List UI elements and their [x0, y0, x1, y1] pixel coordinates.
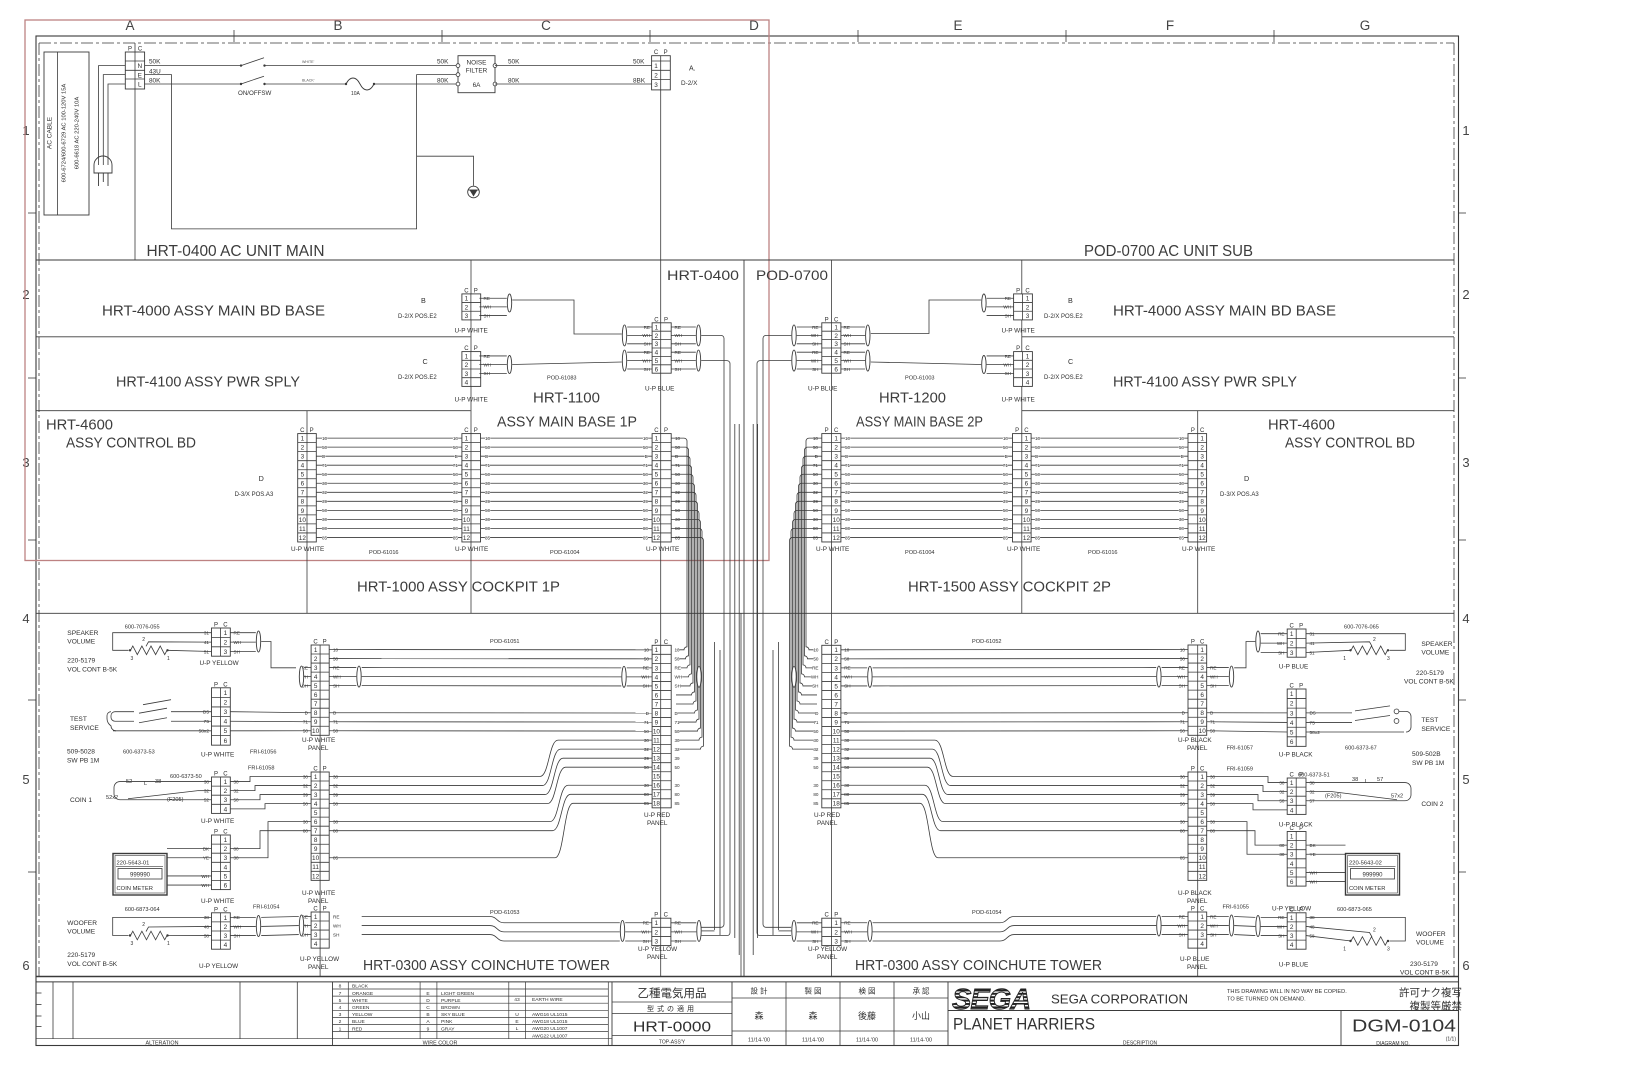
svg-text:TOP-ASS'Y: TOP-ASS'Y [659, 1040, 686, 1046]
svg-text:6: 6 [224, 738, 228, 745]
svg-text:30: 30 [453, 481, 459, 486]
wires L2-L3 [481, 438, 653, 537]
svg-text:39: 39 [845, 499, 851, 504]
svg-text:32: 32 [1035, 490, 1041, 495]
svg-text:7: 7 [314, 828, 318, 835]
bead at connector B [507, 294, 511, 312]
svg-text:6: 6 [301, 481, 305, 488]
svg-text:30: 30 [485, 481, 491, 486]
wire B to mid connector [512, 300, 622, 334]
svg-text:U-P YELLOW: U-P YELLOW [199, 963, 239, 970]
bead right of panel 10pin [357, 666, 361, 687]
svg-text:6: 6 [1200, 481, 1204, 488]
svg-text:2: 2 [1290, 641, 1294, 648]
svg-text:30: 30 [1035, 517, 1041, 522]
svg-text:VOLUME: VOLUME [1421, 650, 1449, 657]
svg-text:80: 80 [485, 526, 491, 531]
svg-text:U-P WHITE: U-P WHITE [302, 737, 335, 744]
svg-text:U-P YELLOW: U-P YELLOW [200, 660, 240, 667]
svg-text:80: 80 [845, 526, 851, 531]
svg-text:50: 50 [485, 445, 491, 450]
svg-text:30: 30 [675, 783, 681, 788]
svg-text:C: C [138, 47, 143, 53]
svg-text:50: 50 [643, 472, 649, 477]
wires plug to AC connector [99, 66, 126, 165]
svg-text:5: 5 [1290, 729, 1294, 736]
svg-text:C: C [313, 767, 318, 773]
svg-text:C: C [426, 1005, 430, 1011]
svg-text:7: 7 [1025, 490, 1029, 497]
svg-text:6: 6 [1290, 739, 1294, 746]
svg-text:57x2: 57x2 [1391, 794, 1403, 800]
svg-text:600-6873-064: 600-6873-064 [125, 907, 160, 913]
svg-text:POD-0700: POD-0700 [756, 267, 828, 283]
pot speaker left [113, 633, 212, 662]
svg-text:C: C [464, 346, 469, 352]
wire white to filter [265, 65, 459, 67]
svg-text:71: 71 [1035, 463, 1041, 468]
svg-text:HRT-0400 AC UNIT MAIN: HRT-0400 AC UNIT MAIN [147, 243, 325, 260]
svg-text:3: 3 [224, 855, 228, 862]
svg-text:C: C [223, 830, 228, 836]
svg-text:SH: SH [812, 684, 818, 689]
svg-text:6: 6 [655, 481, 659, 488]
svg-text:P: P [1191, 428, 1195, 434]
svg-text:2: 2 [654, 72, 658, 79]
svg-text:4: 4 [834, 463, 838, 470]
wires woofer right [1207, 917, 1288, 936]
bead at connector C' [982, 356, 986, 374]
svg-text:50: 50 [453, 508, 459, 513]
svg-text:3: 3 [465, 454, 469, 461]
svg-text:C: C [654, 317, 659, 323]
svg-text:U-P WHITE: U-P WHITE [816, 546, 849, 553]
wires bead to panel 10pin [304, 667, 311, 669]
svg-text:10: 10 [653, 517, 661, 524]
svg-text:FRI-61054: FRI-61054 [253, 905, 279, 911]
svg-text:D5: D5 [1310, 711, 1316, 717]
svg-text:1: 1 [465, 436, 469, 443]
svg-text:(1/1): (1/1) [1446, 1037, 1457, 1043]
svg-text:17: 17 [833, 792, 841, 799]
svg-text:11/14-'00: 11/14-'00 [802, 1038, 824, 1044]
svg-text:220-5179: 220-5179 [67, 658, 95, 665]
svg-text:6: 6 [314, 692, 318, 699]
svg-text:18: 18 [653, 801, 661, 808]
svg-text:SW PB 1M: SW PB 1M [1412, 760, 1444, 767]
svg-text:39: 39 [1003, 499, 1009, 504]
wires yellow panel left right side [671, 923, 715, 941]
svg-text:4: 4 [224, 719, 228, 726]
svg-text:C: C [1024, 428, 1029, 434]
svg-text:8: 8 [1200, 837, 1204, 844]
svg-text:FRI-61056: FRI-61056 [250, 750, 276, 756]
svg-text:POD-61083: POD-61083 [547, 376, 577, 382]
svg-text:4: 4 [1200, 941, 1204, 948]
svg-text:U: U [515, 1012, 519, 1018]
svg-text:50: 50 [1179, 445, 1185, 450]
svg-text:58x2: 58x2 [1310, 730, 1321, 736]
svg-text:FRI-61058: FRI-61058 [248, 766, 274, 772]
svg-text:6: 6 [22, 958, 29, 973]
svg-text:2: 2 [339, 1019, 342, 1025]
svg-text:FRI-61055: FRI-61055 [1223, 905, 1249, 911]
svg-text:14: 14 [653, 765, 661, 772]
svg-text:32: 32 [675, 747, 681, 752]
svg-text:P: P [654, 640, 658, 646]
svg-text:11: 11 [1199, 864, 1206, 871]
woofer volume left [67, 905, 279, 969]
svg-text:1: 1 [339, 1026, 342, 1032]
label A. D-2/X [681, 66, 698, 88]
svg-text:5: 5 [1200, 810, 1204, 817]
svg-text:D-2/X POS.E2: D-2/X POS.E2 [1044, 314, 1083, 320]
svg-text:7: 7 [314, 701, 318, 708]
panel 10pin [311, 640, 329, 736]
wires R3-R2 [841, 438, 1013, 537]
svg-text:ASSY CONTROL BD: ASSY CONTROL BD [66, 436, 196, 452]
svg-text:3: 3 [301, 454, 305, 461]
svg-text:4: 4 [655, 350, 659, 357]
wires D 71 50 red to panel right [841, 713, 1188, 731]
svg-text:WH: WH [333, 923, 341, 928]
coin1 wires [114, 782, 212, 800]
svg-text:6: 6 [834, 692, 838, 699]
svg-text:U-P BLUE: U-P BLUE [645, 386, 674, 393]
U-P RED PANEL 18pin [652, 640, 671, 808]
svg-text:1: 1 [834, 324, 838, 331]
svg-text:C: C [1290, 826, 1295, 832]
svg-text:POD-61016: POD-61016 [1088, 550, 1118, 556]
svg-text:80K: 80K [437, 78, 449, 85]
svg-text:85: 85 [1035, 535, 1041, 540]
svg-text:8: 8 [1200, 710, 1204, 717]
svg-text:9: 9 [301, 508, 305, 515]
svg-text:C: C [654, 50, 659, 56]
svg-text:600-6373-50: 600-6373-50 [170, 774, 202, 780]
svg-text:承 認: 承 認 [912, 986, 930, 996]
wire L 80K to switch [145, 83, 241, 85]
wires yellow panel right left side [779, 923, 822, 941]
U-P WHITE labels row3 [291, 546, 1215, 556]
svg-text:12: 12 [833, 747, 841, 754]
svg-text:C: C [423, 357, 428, 366]
svg-text:10: 10 [299, 517, 307, 524]
svg-text:ORANGE: ORANGE [352, 991, 374, 997]
svg-text:B: B [1068, 296, 1073, 305]
svg-text:1: 1 [654, 63, 658, 70]
svg-text:7: 7 [465, 490, 469, 497]
svg-text:1: 1 [167, 656, 170, 662]
svg-text:50K: 50K [633, 59, 645, 66]
svg-text:1: 1 [1200, 774, 1204, 781]
svg-text:U-P BLACK: U-P BLACK [1279, 752, 1313, 759]
svg-text:C: C [223, 772, 228, 778]
bead at connector C [507, 356, 511, 374]
svg-text:U-P WHITE: U-P WHITE [302, 890, 335, 897]
svg-text:C: C [300, 428, 305, 434]
svg-text:3: 3 [834, 665, 838, 672]
beads at 6pin left [622, 325, 626, 346]
svg-text:SPEAKER: SPEAKER [67, 630, 98, 637]
svg-text:U-P WHITE: U-P WHITE [201, 818, 234, 825]
svg-text:11: 11 [833, 738, 840, 745]
svg-text:50: 50 [485, 472, 491, 477]
svg-text:VOL CONT B-5K: VOL CONT B-5K [1400, 970, 1450, 977]
svg-text:9: 9 [427, 1026, 430, 1032]
svg-text:1: 1 [314, 774, 318, 781]
svg-text:U-P WHITE: U-P WHITE [1002, 397, 1035, 404]
svg-text:600-6373-53: 600-6373-53 [123, 750, 155, 756]
beads at red panel right [792, 666, 796, 687]
svg-text:C: C [1290, 624, 1295, 630]
svg-text:50: 50 [1003, 472, 1009, 477]
svg-text:5: 5 [465, 472, 469, 479]
svg-text:P: P [1016, 288, 1020, 294]
svg-text:10: 10 [1023, 517, 1031, 524]
svg-text:P: P [1015, 428, 1019, 434]
svg-text:15: 15 [653, 774, 661, 781]
wires woofer to bead [230, 916, 256, 918]
svg-text:5: 5 [301, 472, 305, 479]
section divider lines [36, 260, 1459, 977]
bead panel speaker left [299, 666, 303, 687]
svg-text:3: 3 [654, 938, 658, 945]
svg-text:5: 5 [655, 683, 659, 690]
svg-text:森: 森 [754, 1010, 763, 1021]
svg-text:7: 7 [1200, 828, 1204, 835]
svg-text:3: 3 [1290, 710, 1294, 717]
svg-text:WHITE': WHITE' [302, 60, 315, 64]
svg-text:9: 9 [1200, 846, 1204, 853]
svg-text:2: 2 [1373, 637, 1376, 643]
pot woofer left [113, 917, 212, 947]
svg-text:TEST: TEST [70, 716, 87, 723]
svg-text:AWG18 UL1015: AWG18 UL1015 [532, 1019, 568, 1025]
svg-text:2: 2 [654, 929, 658, 936]
svg-text:220-5179: 220-5179 [1416, 670, 1444, 677]
svg-text:6: 6 [465, 481, 469, 488]
svg-text:5: 5 [339, 998, 342, 1004]
svg-text:HRT-1500 ASSY COCKPIT 2P: HRT-1500 ASSY COCKPIT 2P [908, 579, 1111, 596]
svg-text:許可ナク複写: 許可ナク複写 [1399, 986, 1462, 999]
svg-text:2: 2 [834, 929, 838, 936]
pot speaker right [1306, 634, 1405, 662]
svg-text:F: F [1166, 18, 1174, 33]
svg-text:ASSY CONTROL BD: ASSY CONTROL BD [1285, 436, 1415, 452]
svg-text:D-2/X: D-2/X [681, 80, 698, 87]
svg-text:50: 50 [675, 657, 681, 662]
svg-text:C: C [834, 317, 839, 323]
svg-text:10: 10 [312, 728, 320, 735]
svg-text:P: P [474, 288, 478, 294]
svg-text:75: 75 [204, 719, 210, 725]
svg-text:1: 1 [314, 647, 318, 654]
panel 4pin blue [1188, 907, 1207, 949]
svg-text:2: 2 [1026, 304, 1030, 311]
svg-text:P: P [825, 317, 829, 323]
svg-text:NOISE: NOISE [467, 60, 487, 67]
svg-text:50: 50 [845, 508, 851, 513]
svg-text:3: 3 [1290, 933, 1294, 940]
wires POD-61054 [841, 910, 1188, 941]
svg-text:80: 80 [453, 526, 459, 531]
svg-text:2: 2 [224, 846, 228, 853]
wires C to bead [479, 355, 506, 357]
svg-text:7: 7 [834, 701, 838, 708]
svg-text:9: 9 [1025, 508, 1029, 515]
svg-text:4: 4 [301, 463, 305, 470]
test 6pin U-P BLACK right [1287, 684, 1306, 747]
svg-text:2: 2 [314, 923, 318, 930]
svg-text:10: 10 [1003, 436, 1009, 441]
svg-text:9: 9 [834, 508, 838, 515]
svg-text:PLANET HARRIERS: PLANET HARRIERS [953, 1016, 1095, 1034]
svg-text:7: 7 [1200, 701, 1204, 708]
svg-text:999990: 999990 [1362, 873, 1383, 879]
ground symbol [468, 186, 480, 198]
wire POD-61051 rows [329, 639, 652, 659]
svg-text:PANEL: PANEL [647, 954, 668, 961]
speaker volume pot left [67, 625, 159, 674]
svg-text:4: 4 [1200, 801, 1204, 808]
svg-text:1: 1 [654, 920, 658, 927]
svg-text:HRT-4100 ASSY PWR SPLY: HRT-4100 ASSY PWR SPLY [116, 375, 300, 391]
svg-text:11: 11 [1199, 526, 1206, 533]
svg-text:4: 4 [1026, 379, 1030, 386]
bead speaker right [1256, 631, 1260, 652]
svg-text:U-P WHITE: U-P WHITE [291, 546, 324, 553]
svg-text:12: 12 [1023, 535, 1031, 542]
svg-text:50K: 50K [149, 59, 161, 66]
svg-text:3: 3 [465, 313, 469, 320]
svg-text:D-2/X POS.E2: D-2/X POS.E2 [398, 375, 437, 381]
svg-text:50: 50 [675, 729, 681, 734]
svg-text:600-7076-065: 600-7076-065 [1344, 625, 1379, 631]
svg-text:POD-61053: POD-61053 [490, 910, 520, 916]
svg-text:50: 50 [1003, 508, 1009, 513]
connector D R2 (U-P WHITE 12pin) [1013, 428, 1032, 542]
svg-text:PANEL: PANEL [817, 954, 838, 961]
svg-text:DGM-0104: DGM-0104 [1352, 1016, 1456, 1036]
wires test to panel D 71 50 [230, 712, 311, 731]
svg-text:SEGA: SEGA [952, 984, 1030, 1016]
svg-text:3: 3 [1462, 455, 1469, 470]
svg-text:6: 6 [224, 882, 228, 889]
svg-text:11: 11 [299, 526, 306, 533]
svg-text:PANEL: PANEL [308, 964, 329, 971]
svg-text:C: C [1290, 773, 1295, 779]
svg-text:50: 50 [1003, 445, 1009, 450]
svg-text:3: 3 [834, 454, 838, 461]
svg-text:YELLOW: YELLOW [352, 1012, 373, 1018]
svg-text:10: 10 [1199, 517, 1207, 524]
svg-text:30: 30 [485, 517, 491, 522]
svg-text:GREEN: GREEN [352, 1005, 370, 1011]
svg-text:1: 1 [224, 915, 228, 922]
coin meter right [1346, 854, 1400, 896]
12pin wire labels [322, 436, 328, 540]
svg-text:8: 8 [655, 499, 659, 506]
svg-text:PANEL: PANEL [817, 820, 838, 827]
connector D L2 (U-P WHITE 12pin) [462, 428, 481, 542]
svg-text:2: 2 [1462, 287, 1469, 302]
svg-text:C: C [1068, 357, 1073, 366]
svg-text:10: 10 [463, 517, 471, 524]
svg-text:50: 50 [675, 765, 681, 770]
bead speaker left [256, 631, 260, 652]
svg-text:50: 50 [845, 445, 851, 450]
svg-text:10: 10 [1199, 855, 1207, 862]
svg-text:509-502B: 509-502B [1412, 751, 1441, 758]
svg-text:P: P [664, 50, 668, 56]
svg-text:3: 3 [131, 656, 134, 662]
svg-text:C: C [464, 428, 469, 434]
svg-text:85: 85 [675, 801, 681, 806]
svg-text:32: 32 [453, 490, 459, 495]
wire C' to mid connector right [871, 362, 981, 365]
svg-text:50: 50 [813, 729, 819, 734]
svg-text:10: 10 [485, 436, 491, 441]
svg-text:2: 2 [314, 656, 318, 663]
svg-text:8: 8 [834, 499, 838, 506]
svg-text:9: 9 [655, 719, 659, 726]
svg-text:SEGA CORPORATION: SEGA CORPORATION [1051, 992, 1188, 1007]
svg-text:11: 11 [1023, 526, 1030, 533]
svg-text:85: 85 [813, 801, 819, 806]
svg-text:6: 6 [1200, 819, 1204, 826]
svg-text:71: 71 [322, 463, 328, 468]
center bundle right (wires down) [790, 438, 822, 749]
svg-text:P: P [128, 47, 132, 53]
svg-text:50: 50 [1179, 508, 1185, 513]
svg-text:BLUE: BLUE [352, 1019, 366, 1025]
svg-text:10: 10 [453, 436, 459, 441]
svg-text:1: 1 [314, 914, 318, 921]
svg-text:P: P [1016, 346, 1020, 352]
svg-text:HRT-4000 ASSY MAIN BD BASE: HRT-4000 ASSY MAIN BD BASE [1113, 304, 1336, 320]
svg-text:HRT-0300 ASSY COINCHUTE TOWER: HRT-0300 ASSY COINCHUTE TOWER [855, 957, 1102, 974]
svg-text:6: 6 [655, 692, 659, 699]
svg-text:P: P [834, 640, 838, 646]
wires meter right to panel [1207, 822, 1288, 855]
svg-text:4: 4 [224, 942, 228, 949]
svg-text:5: 5 [834, 358, 838, 365]
svg-text:1: 1 [655, 324, 659, 331]
wire black to fuse [265, 83, 347, 85]
svg-text:10A: 10A [351, 91, 361, 97]
svg-text:85: 85 [1179, 535, 1185, 540]
svg-text:30: 30 [845, 481, 851, 486]
svg-text:HRT-1000 ASSY COCKPIT 1P: HRT-1000 ASSY COCKPIT 1P [357, 579, 560, 596]
svg-text:4: 4 [1290, 942, 1294, 949]
svg-text:50: 50 [813, 765, 819, 770]
svg-text:6: 6 [834, 366, 838, 373]
svg-text:FRI-61059: FRI-61059 [1227, 767, 1253, 773]
U-P YELLOW PANEL 3pin [652, 913, 671, 946]
svg-text:G: G [1360, 18, 1371, 33]
svg-text:39: 39 [322, 499, 328, 504]
svg-text:6: 6 [655, 366, 659, 373]
svg-text:50K: 50K [508, 59, 520, 66]
svg-text:U-P WHITE: U-P WHITE [646, 546, 679, 553]
wires R2-R1 [1031, 438, 1188, 537]
svg-text:C: C [824, 640, 829, 646]
svg-text:51: 51 [1310, 650, 1316, 655]
svg-text:30: 30 [1003, 517, 1009, 522]
svg-text:PURPLE: PURPLE [441, 998, 461, 1004]
svg-text:50: 50 [1035, 472, 1041, 477]
